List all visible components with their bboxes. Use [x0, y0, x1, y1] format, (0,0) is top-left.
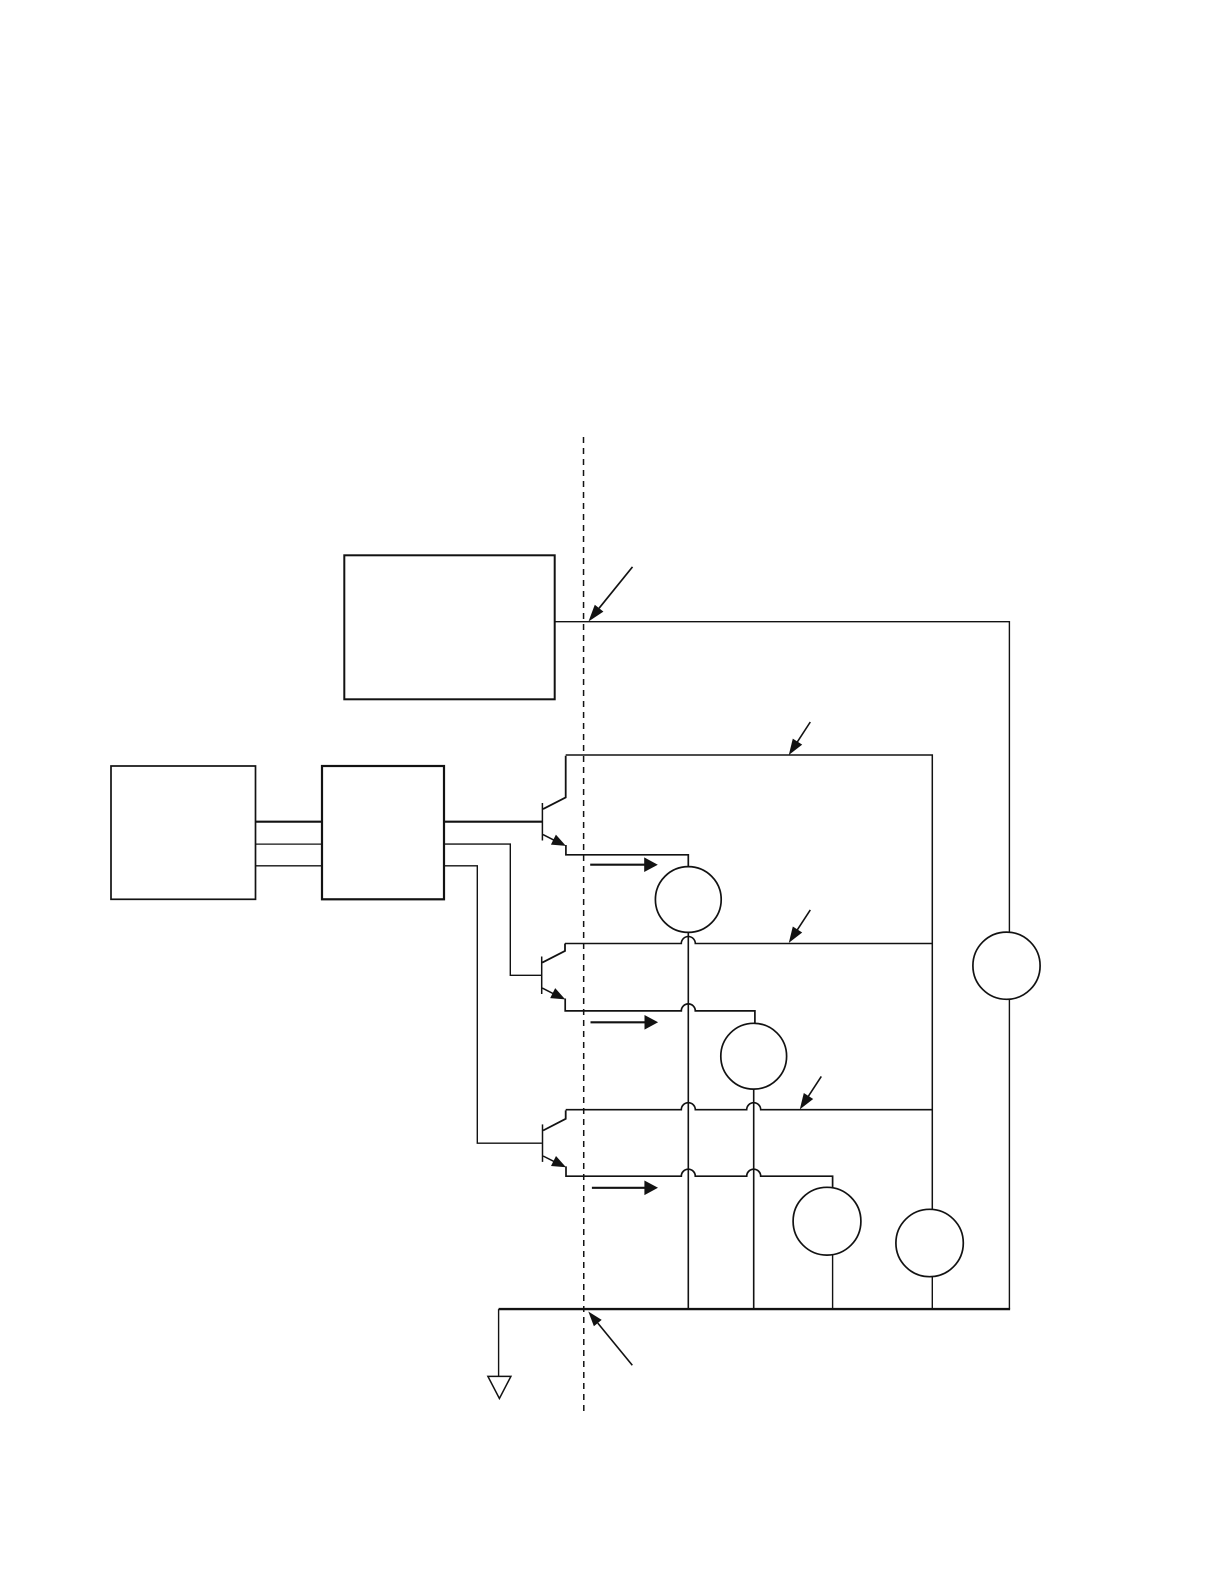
- block: top control box: [344, 555, 554, 699]
- wire: collector rail of Q2 (hop over L1 wire): [565, 937, 932, 944]
- wire: common return bus: [499, 1308, 1010, 1310]
- wire: top box output to right supply rail: [555, 622, 1010, 933]
- wire: bus line 2 between boxes: [256, 843, 323, 845]
- indicator lamp L5: [973, 932, 1040, 999]
- wire: base lead to Q3: [444, 866, 542, 1143]
- wire: L4 bottom to common bus: [931, 1277, 933, 1310]
- pointer arrow P2: [789, 722, 811, 755]
- pointer arrow P5: [588, 1312, 632, 1366]
- transistor Q2: [542, 944, 755, 1024]
- indicator lamp L3: [793, 1187, 861, 1255]
- flow arrow A1: [590, 857, 658, 872]
- wire: collector rail of Q3 (hops over L1 and L2 wires): [566, 1103, 933, 1110]
- wire: L5 bottom to bus corner: [1008, 999, 1010, 1309]
- block: driver box: [322, 766, 444, 899]
- dashed boundary line (unit separation): [583, 437, 585, 1416]
- wire: bus line 1 between boxes: [256, 821, 323, 823]
- pointer arrow P3: [789, 910, 811, 943]
- wire: L3 bottom to common bus: [832, 1255, 834, 1310]
- wire: base lead to Q2: [444, 844, 541, 975]
- block: left input box: [111, 766, 256, 899]
- indicator lamp L4: [896, 1209, 963, 1276]
- flow arrow A2: [591, 1015, 659, 1030]
- indicator lamp L1: [655, 867, 721, 933]
- wire: L1 bottom to common bus: [687, 932, 689, 1309]
- wire: L2 bottom to common bus: [753, 1089, 755, 1309]
- transistor Q1: [542, 756, 688, 867]
- pointer arrow P4: [800, 1076, 822, 1109]
- transistor Q3: [543, 1110, 833, 1188]
- ground: [488, 1309, 511, 1398]
- wire: bus line 3 between boxes: [256, 865, 323, 867]
- wire: collector rail of Q1 to right rail: [566, 755, 933, 1209]
- flow arrow A3: [592, 1181, 658, 1196]
- wire: base lead to Q1: [444, 821, 542, 823]
- indicator lamp L2: [721, 1023, 787, 1089]
- pointer arrow P1: [589, 567, 633, 622]
